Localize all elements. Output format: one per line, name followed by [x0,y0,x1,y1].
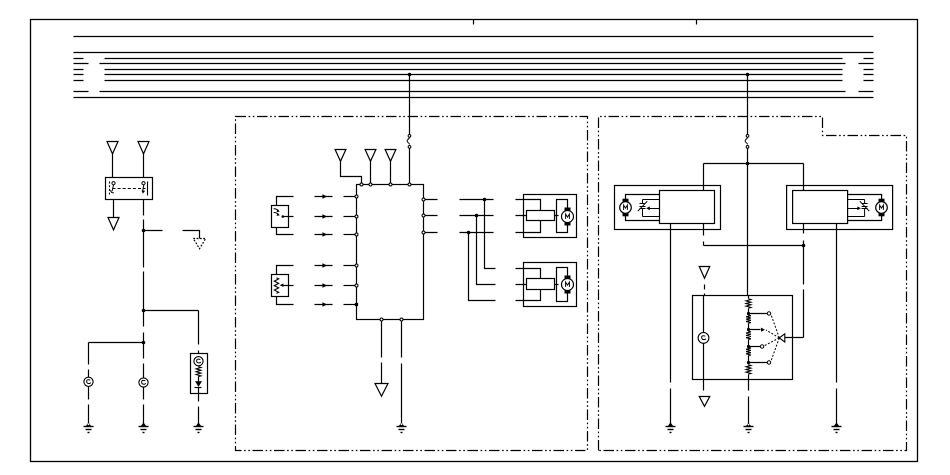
ground G7 [746,423,752,427]
sensor U3 middle wire [289,285,294,287]
servo motor assembly M2 [524,263,577,307]
junction J3 [142,341,146,345]
resistor R4 [746,331,751,339]
tap wire T3 [749,346,761,348]
harness arrow row 2 [315,216,333,218]
blower motor assembly M4 [787,186,893,230]
bus wire 7 [74,80,874,82]
sensor U3 thermistor [274,278,278,294]
sensor U2 element [274,209,279,215]
rotary wiper [779,334,785,342]
inline connector on feed wire [408,135,411,138]
bus wire 1 [74,36,874,38]
wire L2 to ground [143,388,145,424]
wire S1 right pin down [143,200,145,231]
harness arrow row 3 [315,234,333,236]
bus wire 6 [74,74,874,76]
wire J2 down to J3 [143,311,145,343]
connector triangle C1 [699,267,710,279]
bulb L3 [194,357,203,366]
connector triangle B4 [375,384,388,397]
wire J4 down to blower switch [747,164,749,296]
tap junction T1 [747,312,750,315]
harness arrow row 1 [315,196,333,198]
connector triangle B1 [335,150,346,162]
feed wire to heater circuit [747,75,749,164]
wire M4 output [803,224,805,246]
wire M3 to ground [670,224,672,424]
indicator assembly box [191,354,208,394]
wire J1 stub right [144,230,163,232]
wire drop row 2 [477,216,523,285]
wire ECU right row 1 [425,199,523,201]
wire J4 branches [704,164,804,191]
pin ECU right 3 [422,231,425,234]
harness arrow row 6 [315,304,333,306]
tap junction T3 [747,345,750,348]
contact T1 [767,312,770,315]
pin ECU top 4 [408,183,411,186]
connector triangle A2 [138,142,149,154]
feed wire to ECU [409,75,411,184]
bulb L2 [139,378,148,387]
contact T3 [760,345,763,348]
bulb L1 [84,377,93,386]
tap wire T2 [749,329,761,331]
connector triangle C2 [699,397,710,407]
sensor U2 top wire [277,197,294,206]
pin ECU top 2 [369,183,372,186]
pin of S1 (left) [112,182,115,185]
wire bulb to box bottom [703,344,705,380]
wire J3 branch left [89,342,144,344]
pin ECU top 1 [360,183,363,186]
junction J2 [142,309,146,313]
harness arrow row 4 [315,265,333,267]
sensor U3 top wire [277,266,294,275]
tap junction T2 [747,328,750,331]
junction row 2 [475,214,479,218]
pin ECU bottom 2 [400,318,403,321]
ground G3 [196,422,202,426]
wire resistor to diode [198,377,200,382]
sensor U2 bottom wire [277,228,294,235]
bus wire 4 [74,63,874,65]
bus wire 3 [74,58,874,60]
blower resistor ladder [748,296,750,380]
inline connector on right feed wire [746,135,749,138]
pin ECU left 6 [355,303,358,306]
pin ECU left 4 [355,264,358,267]
junction J5 [802,244,806,248]
connector triangle A3 [108,218,119,230]
pin ECU right 2 [422,214,425,217]
wire A1 to switch [112,154,114,178]
resistor R2 [746,299,751,308]
pin ECU left 3 [355,233,358,236]
shield connector triangle (dashed) [193,239,205,249]
wire A2 to switch [143,154,145,178]
sensor U2 middle wire [289,216,294,218]
wire down to bulb L1 [88,343,90,378]
pin ECU bottom 1 [380,318,383,321]
sensor U2 box [272,206,289,228]
switch S1 (dual contact) body [106,178,153,200]
bus wire 2 [74,52,874,54]
wire B1 to ECU [341,161,362,184]
wire drop row 1 [485,200,523,269]
ECU U1 (amplifier) body [357,185,424,320]
wire J3 down to bulb L2 [143,343,145,378]
heater control section outline [599,117,907,451]
wire B2 to ECU [370,161,372,184]
wire M3 output [704,224,804,246]
bus wire 5 [74,69,874,71]
blower switch box [693,296,793,380]
tap wire T4 [749,362,768,364]
junction row 3 [467,231,471,235]
wire ECU right row 3 [425,232,523,234]
wire J5 to switch wiper [785,246,804,338]
wire ECU bottom 1 [381,322,383,384]
sensor U3 bottom wire [277,297,294,305]
pin ECU left 1 [355,195,358,198]
wire ECU right row 2 [425,215,523,217]
wire J1 down to J2 [143,231,145,311]
bus wire 8 [74,91,874,93]
tap junction T4 [747,361,750,364]
diode D1 [195,381,202,387]
ground G5 [668,422,674,426]
wire M4 to ground [836,224,838,424]
wire J2 branch right [144,311,199,354]
pin ECU right 1 [422,198,425,201]
connector triangle A1 [107,142,118,154]
sensor U3 box [272,275,289,297]
wire box to ground [198,394,200,424]
junction J4 [746,162,750,166]
junction J1 [142,229,146,233]
wire to shield connector [183,231,200,239]
pin ECU top 3 [389,183,392,186]
contact T2 arrow [761,328,765,332]
servo motor assembly M1 [524,195,577,238]
wire ECU bottom 2 to ground [401,322,403,424]
junction on bus wire 6 (right feed) [746,73,750,77]
ground G4 [399,422,405,426]
ground G1 [86,422,92,426]
illumination bulb L4 [698,333,709,344]
ground G6 [834,422,840,426]
junction row 1 [483,198,487,202]
wire L1 to ground [88,387,90,424]
connector triangle B3 [385,150,396,162]
ground G2 [141,422,147,426]
wire ladder to ground [748,380,750,424]
wire drop row 3 [469,233,523,301]
harness arrow row 5 [315,285,333,287]
A/C amplifier section outline [236,117,588,451]
resistor R6 [746,365,751,374]
contact T4 [767,361,770,364]
tap wire T1 [749,313,768,315]
pin ECU left 2 [355,215,358,218]
connector triangle B2 [365,150,376,162]
wire bulb to resistor [198,366,200,367]
wire S1 left pin down [113,200,115,218]
wire C1 into switch box [704,285,706,296]
wire to illumination bulb [703,296,705,333]
wiper linkage dashes [764,314,779,362]
resistor R5 [746,348,751,356]
switch S1 internals [109,182,111,195]
bus wire 9 [74,97,874,99]
pin ECU left 5 [355,284,358,287]
blower motor assembly M3 [615,186,721,230]
resistor R3 [746,315,751,323]
wire box bottom to connector [703,380,705,391]
resistor R1 [196,367,201,377]
pin of S1 (right) [142,182,145,185]
wire B3 to ECU [390,161,392,184]
junction on bus wire 6 (middle feed) [408,73,412,77]
